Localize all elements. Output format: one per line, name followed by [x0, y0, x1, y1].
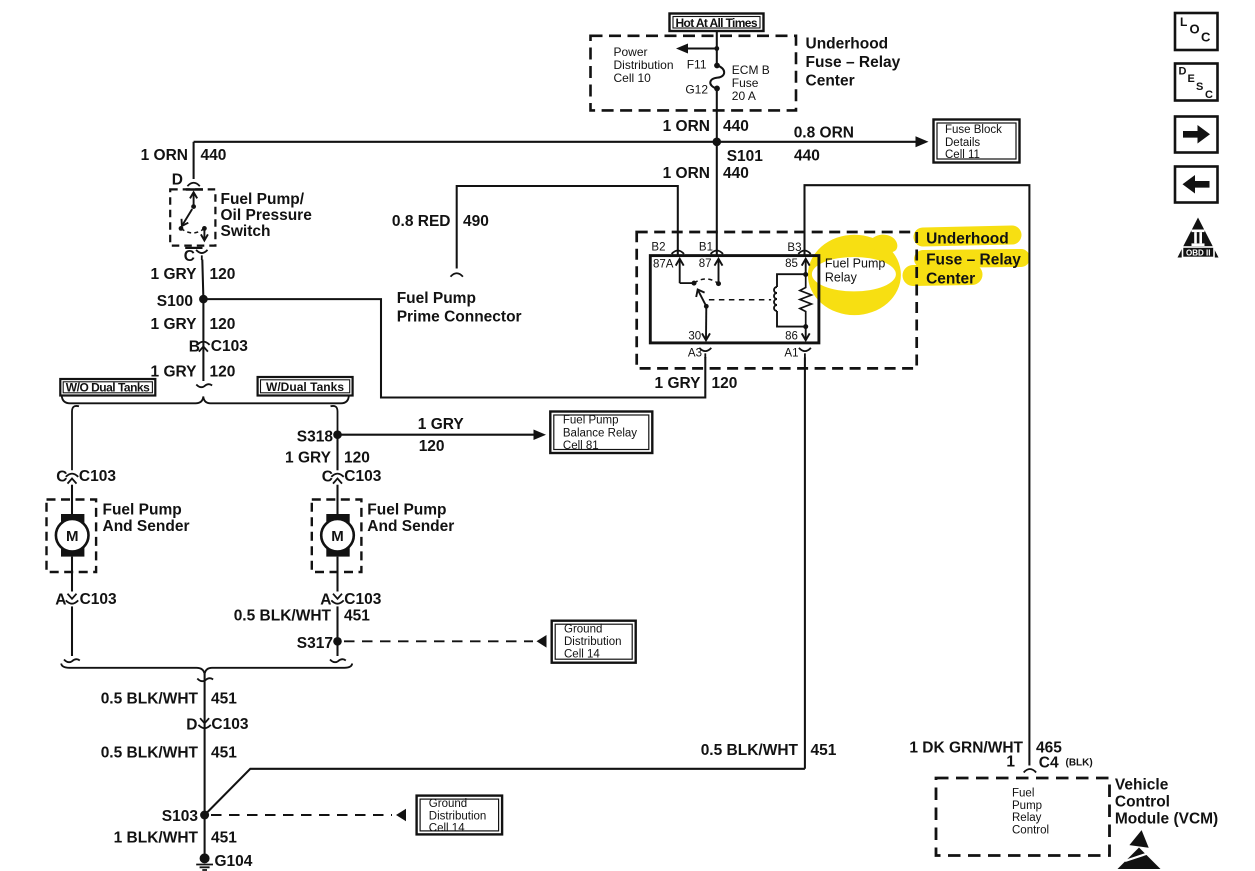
relay U2 solid box [650, 256, 819, 343]
svg-text:Fuel Pump: Fuel Pump [103, 502, 182, 519]
svg-text:Ground: Ground [429, 798, 467, 810]
switch dashed travel arc [181, 228, 204, 233]
relay pin 30 down arrow [688, 306, 710, 342]
highlighter band over Fuse - Relay [923, 258, 1021, 259]
svg-text:B: B [189, 339, 200, 356]
left branch hook and wire [72, 406, 79, 470]
svg-text:G104: G104 [215, 853, 253, 870]
Ground Distribution Cell 14 box (upper) [552, 621, 636, 663]
svg-text:440: 440 [723, 118, 749, 135]
svg-text:(BLK): (BLK) [1066, 758, 1093, 769]
relay linkage dashed line [709, 299, 771, 301]
VCM dashed box [936, 778, 1110, 856]
ESD symbol at VCM [1118, 829, 1161, 869]
W/O Dual Tanks flag box [60, 379, 155, 396]
svg-text:1 GRY: 1 GRY [151, 364, 198, 381]
svg-text:Underhood: Underhood [806, 36, 889, 53]
svg-text:120: 120 [344, 450, 370, 467]
svg-text:Pump: Pump [1012, 800, 1042, 812]
svg-text:120: 120 [712, 375, 738, 392]
switch bottom contact bar [185, 247, 202, 249]
svg-text:Underhood: Underhood [926, 231, 1009, 248]
svg-text:1 ORN: 1 ORN [663, 118, 710, 135]
motor M2 Fuel Pump And Sender (right) [312, 500, 362, 573]
svg-text:E: E [1188, 73, 1195, 85]
relay dashed travel arc [694, 279, 719, 284]
sidebar icon OBD II triangle [1178, 218, 1219, 258]
svg-text:451: 451 [211, 691, 237, 708]
svg-text:C103: C103 [79, 468, 116, 485]
svg-text:0.8 ORN: 0.8 ORN [794, 125, 854, 142]
svg-text:Cell 14: Cell 14 [564, 649, 600, 661]
svg-text:M: M [66, 528, 79, 545]
svg-text:120: 120 [210, 266, 236, 283]
svg-text:M: M [331, 528, 344, 545]
svg-text:C103: C103 [211, 716, 248, 733]
svg-text:A: A [320, 592, 331, 609]
svg-text:Fuel Pump: Fuel Pump [825, 257, 885, 271]
svg-text:Power: Power [614, 45, 648, 59]
sidebar icon DESC box [1175, 64, 1218, 102]
connector Y at pin C [196, 250, 207, 260]
svg-text:440: 440 [723, 165, 749, 182]
svg-text:C103: C103 [211, 338, 248, 355]
svg-text:Hot At All Times: Hot At All Times [676, 16, 758, 30]
svg-text:Cell 11: Cell 11 [945, 149, 980, 161]
svg-text:And Sender: And Sender [103, 518, 190, 535]
svg-text:S101: S101 [727, 148, 764, 165]
svg-text:B1: B1 [699, 242, 713, 254]
switch top contact bar [186, 188, 203, 191]
dashed wire S103 to Ground Distribution [211, 809, 406, 822]
svg-text:ECM B: ECM B [732, 63, 770, 77]
svg-text:S103: S103 [162, 808, 199, 825]
svg-text:0.5 BLK/WHT: 0.5 BLK/WHT [101, 745, 199, 762]
svg-text:451: 451 [211, 745, 237, 762]
motor M1 Fuel Pump And Sender (left) [47, 500, 97, 573]
relay pin 86 down arrow [785, 327, 810, 343]
svg-text:1 GRY: 1 GRY [151, 266, 198, 283]
dashed box Underhood Fuse-Relay Center (power distribution) [591, 36, 797, 111]
svg-text:0.8 RED: 0.8 RED [392, 213, 451, 230]
svg-text:Center: Center [926, 271, 975, 288]
svg-text:S318: S318 [297, 429, 334, 446]
svg-text:Relay: Relay [825, 271, 858, 285]
sidebar icon back arrow box [1175, 167, 1218, 203]
svg-text:Fuel Pump: Fuel Pump [397, 290, 476, 307]
svg-text:Module (VCM): Module (VCM) [1115, 811, 1218, 828]
highlighter band over Underhood [923, 235, 1012, 237]
highlighter ring around Fuel Pump Relay label [808, 235, 901, 316]
Fuel Pump Balance Relay Cell 81 box [550, 412, 652, 454]
node S318 [333, 430, 342, 439]
relay resistor [800, 275, 812, 327]
svg-text:D: D [1179, 66, 1187, 78]
wire into left motor [71, 485, 73, 515]
wire S100 to A3 of relay [203, 299, 705, 397]
svg-text:Fuse – Relay: Fuse – Relay [806, 54, 901, 71]
svg-text:Cell 10: Cell 10 [614, 71, 652, 85]
svg-text:120: 120 [419, 438, 445, 455]
svg-text:Details: Details [945, 137, 980, 149]
svg-text:Balance Relay: Balance Relay [563, 428, 637, 440]
node S317 [333, 637, 342, 646]
wire A1 down (long return) [804, 358, 806, 769]
svg-text:Distribution: Distribution [429, 811, 487, 823]
right branch hook and wire [331, 406, 338, 435]
svg-text:S100: S100 [157, 293, 193, 310]
svg-text:451: 451 [344, 608, 370, 625]
wire left branch down to D pin [193, 142, 195, 179]
wire below right motor [336, 557, 338, 592]
svg-text:C: C [1201, 30, 1211, 45]
svg-text:Fuel: Fuel [1012, 788, 1034, 800]
connector chevron at prime connector [451, 273, 463, 276]
svg-text:Oil Pressure: Oil Pressure [221, 207, 313, 224]
node S101 [713, 138, 722, 147]
svg-text:Switch: Switch [221, 223, 271, 240]
svg-text:86: 86 [785, 331, 798, 343]
svg-text:87A: 87A [653, 259, 674, 271]
wire to bottom squiggle (left branch) [71, 606, 73, 656]
svg-text:C: C [1205, 89, 1213, 101]
svg-text:D: D [172, 172, 183, 189]
wire from Hot At All Times down to fuse F11 [716, 31, 718, 66]
svg-text:1 ORN: 1 ORN [141, 147, 188, 164]
svg-text:O: O [1190, 22, 1200, 37]
svg-text:490: 490 [463, 213, 489, 230]
svg-text:Fuel Pump: Fuel Pump [367, 502, 446, 519]
svg-text:1 ORN: 1 ORN [663, 165, 710, 182]
svg-text:440: 440 [794, 148, 820, 165]
svg-text:C103: C103 [344, 468, 381, 485]
svg-text:C103: C103 [80, 591, 117, 608]
svg-text:Distribution: Distribution [564, 636, 622, 648]
svg-text:C103: C103 [344, 591, 381, 608]
svg-text:A: A [55, 592, 66, 609]
svg-text:W/O Dual Tanks: W/O Dual Tanks [66, 381, 150, 395]
svg-text:Fuel Pump: Fuel Pump [563, 415, 619, 427]
svg-text:Control: Control [1012, 824, 1049, 836]
svg-text:87: 87 [699, 258, 712, 270]
arrow to Power Distribution [676, 44, 719, 54]
relay contact 87A arrow [653, 259, 697, 286]
svg-text:Center: Center [806, 73, 855, 90]
switch U: Fuel Pump / Oil Pressure Switch dashed box [170, 189, 215, 245]
wire B3 up over to VCM C4 [805, 185, 1030, 765]
switch down arrow at second contact [201, 228, 208, 240]
wire S318 down to C connector [336, 435, 338, 471]
svg-text:Fuse Block: Fuse Block [945, 124, 1002, 136]
svg-text:0.5 BLK/WHT: 0.5 BLK/WHT [101, 691, 199, 708]
relay contact 87 arrow [699, 258, 723, 286]
main horizontal wire with arrow to Fuse Block Details [194, 136, 929, 147]
svg-text:451: 451 [211, 830, 237, 847]
svg-text:20 A: 20 A [732, 89, 756, 103]
svg-text:Fuse: Fuse [732, 76, 759, 90]
svg-text:0.5 BLK/WHT: 0.5 BLK/WHT [701, 742, 799, 759]
wire below left motor [71, 557, 73, 592]
node S103 [200, 811, 209, 820]
svg-text:D: D [186, 717, 197, 734]
svg-text:C: C [322, 469, 333, 486]
svg-text:1 GRY: 1 GRY [151, 316, 198, 333]
svg-text:C: C [184, 248, 195, 265]
switch blade [182, 209, 193, 226]
svg-text:451: 451 [811, 742, 837, 759]
relay center dashed box [637, 232, 917, 368]
Hot At All Times flag box [670, 14, 764, 32]
wire fuse to B1 pin of relay [716, 88, 718, 255]
svg-text:85: 85 [785, 258, 798, 270]
svg-text:Cell 81: Cell 81 [563, 440, 599, 452]
connector chevron at D [187, 183, 199, 186]
wire into right motor [336, 485, 338, 515]
relay pin 85 arrow [785, 258, 810, 275]
wire S318 to Fuel Pump Balance Relay [338, 430, 547, 441]
wire below brace with squiggle [204, 674, 206, 815]
svg-text:B2: B2 [651, 242, 665, 254]
Ground Distribution Cell 14 box (lower) [417, 796, 503, 835]
svg-text:L: L [1180, 15, 1187, 29]
svg-text:C: C [56, 469, 67, 486]
svg-text:A1: A1 [784, 348, 798, 360]
wire down to S317 [336, 606, 338, 641]
svg-text:G12: G12 [685, 83, 708, 97]
relay coil loop [774, 272, 808, 329]
svg-text:1 GRY: 1 GRY [285, 450, 332, 467]
svg-text:Relay: Relay [1012, 812, 1042, 824]
svg-text:Distribution: Distribution [614, 58, 674, 72]
svg-text:0.5 BLK/WHT: 0.5 BLK/WHT [234, 608, 332, 625]
svg-text:120: 120 [210, 364, 236, 381]
svg-text:S317: S317 [297, 635, 333, 652]
node S100 [199, 295, 208, 304]
bottom merge brace [61, 664, 352, 675]
highlighter band over Center [913, 275, 972, 276]
svg-text:1 GRY: 1 GRY [655, 375, 702, 392]
svg-text:Control: Control [1115, 794, 1170, 811]
svg-text:Fuse – Relay: Fuse – Relay [926, 252, 1021, 269]
fuse ECM B 20A [710, 63, 724, 92]
svg-text:30: 30 [688, 331, 701, 343]
switch contact dots [179, 226, 184, 231]
svg-text:Fuel Pump/: Fuel Pump/ [221, 191, 305, 208]
wire C pin down through B connector to tank split [202, 260, 203, 382]
svg-text:F11: F11 [687, 58, 707, 72]
sidebar icon forward arrow box [1175, 117, 1218, 153]
svg-text:120: 120 [210, 316, 236, 333]
wire S103 to ground G104 [204, 815, 206, 858]
svg-text:Vehicle: Vehicle [1115, 777, 1169, 794]
svg-text:1: 1 [1006, 754, 1015, 771]
relay movable blade [696, 290, 708, 309]
wire end squiggle above tank brace [196, 384, 212, 387]
svg-text:And Sender: And Sender [367, 518, 454, 535]
svg-text:W/Dual Tanks: W/Dual Tanks [266, 380, 344, 394]
sidebar icon LOC box [1175, 13, 1218, 50]
svg-text:OBD II: OBD II [1186, 249, 1210, 258]
svg-text:1 GRY: 1 GRY [418, 416, 465, 433]
W/Dual Tanks flag box [258, 377, 353, 396]
svg-text:440: 440 [201, 147, 227, 164]
svg-text:Prime Connector: Prime Connector [397, 309, 522, 326]
Fuse Block Details Cell 11 box [934, 120, 1020, 163]
dashed wire S317 to Ground Distribution [344, 635, 547, 648]
switch up arrow to pin D [190, 192, 197, 209]
wire S317 to bottom squiggle [336, 641, 338, 656]
wire B2 to Fuel Pump Prime Connector [457, 186, 678, 269]
wire S103 diagonal up to A1 return line [205, 769, 805, 815]
svg-text:1 BLK/WHT: 1 BLK/WHT [114, 830, 199, 847]
ground G104 [196, 853, 213, 870]
svg-text:Ground: Ground [564, 624, 602, 636]
svg-text:S: S [1196, 81, 1203, 93]
svg-text:C4: C4 [1039, 755, 1059, 772]
top split brace [62, 396, 349, 404]
svg-text:Cell 14: Cell 14 [429, 823, 465, 835]
